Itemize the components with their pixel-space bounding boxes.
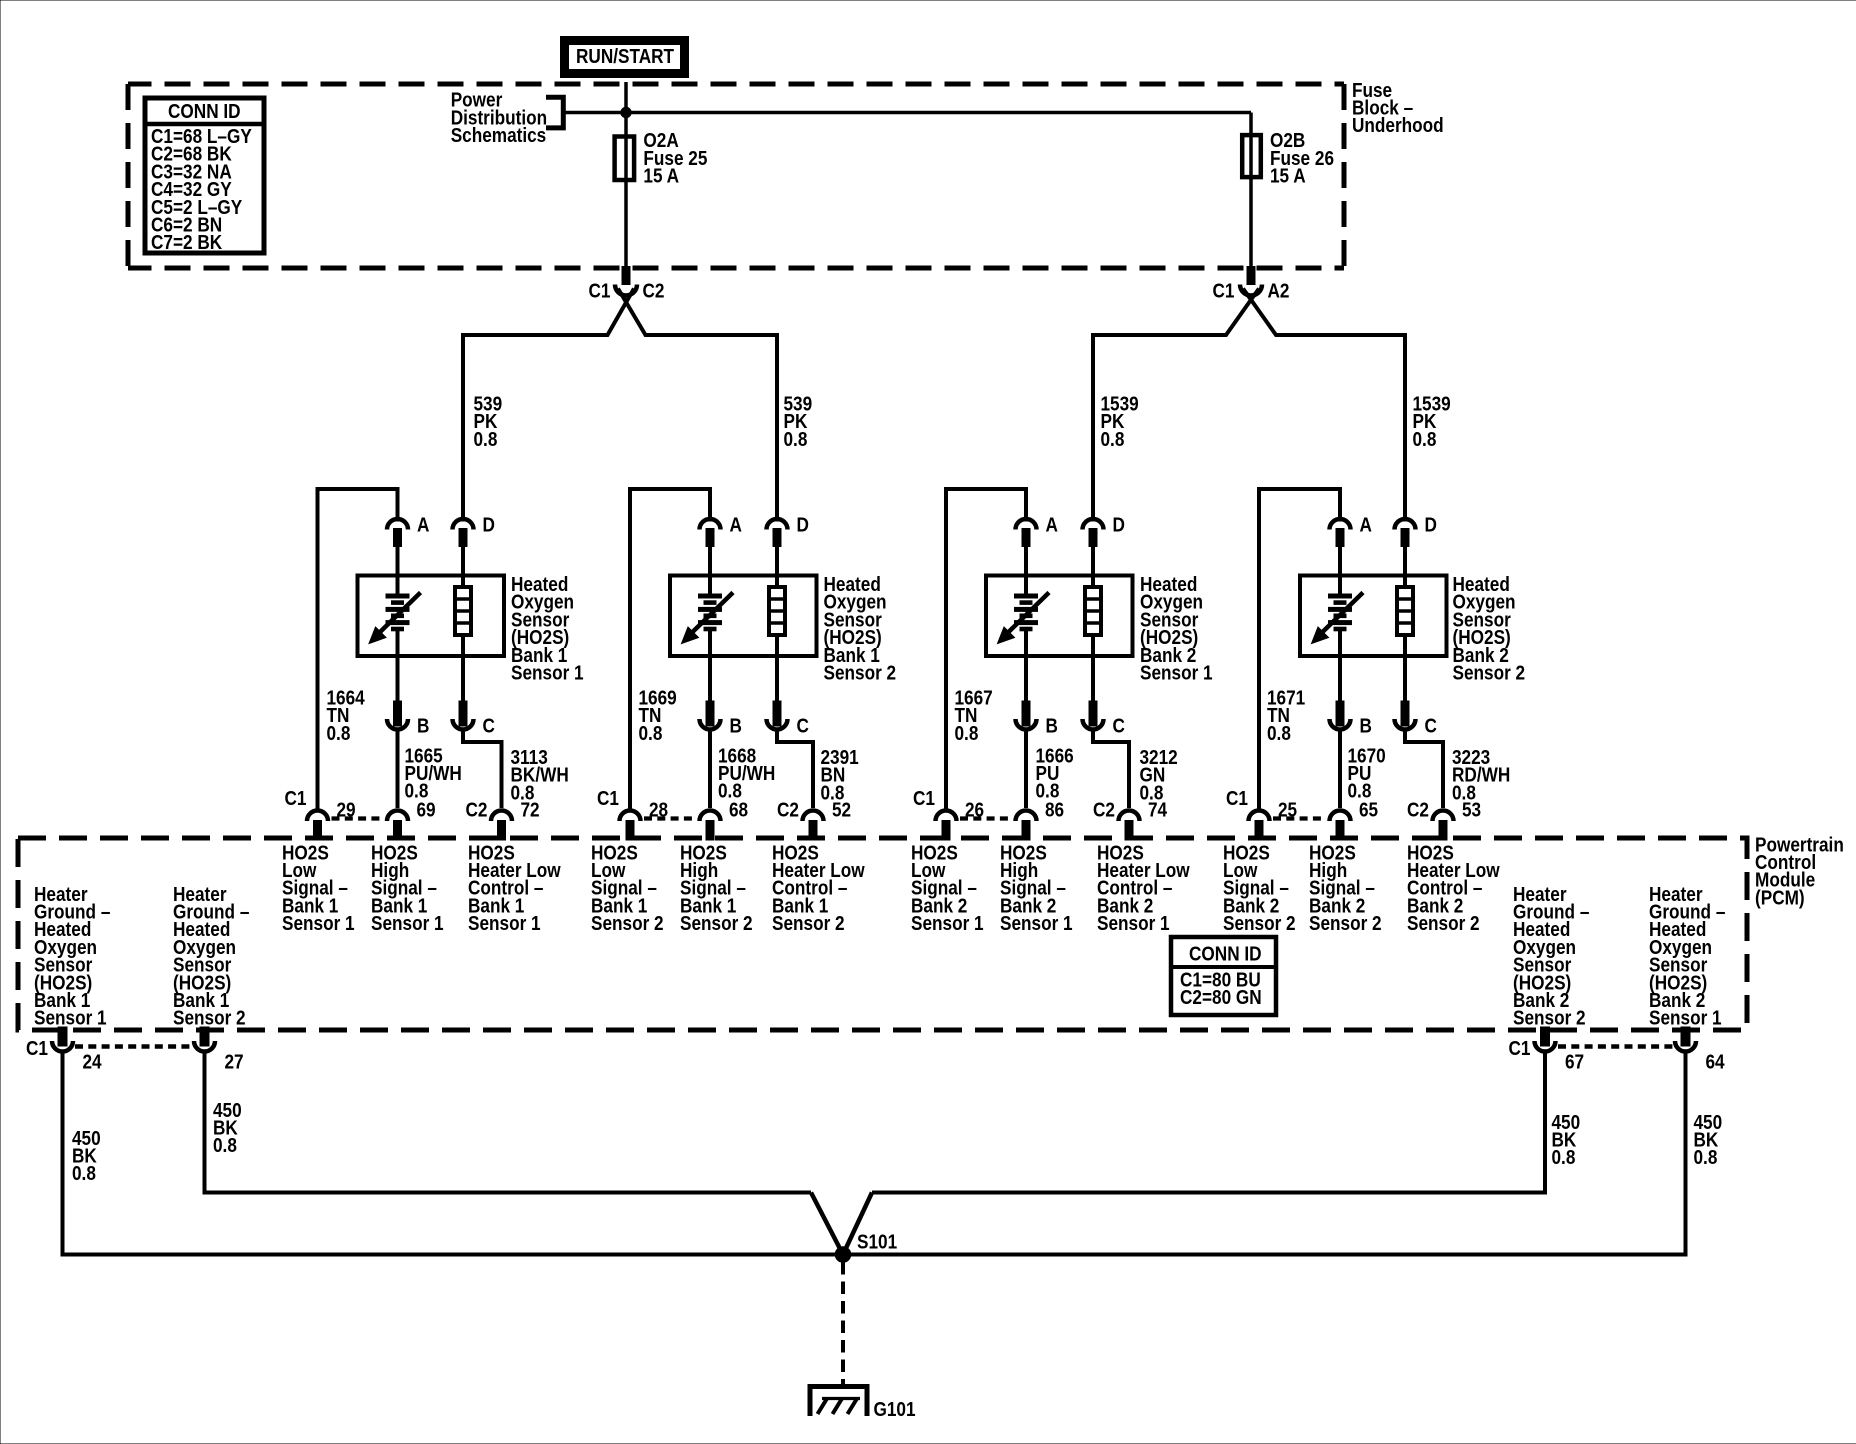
svg-text:RUN/START: RUN/START [576, 45, 675, 68]
svg-text:0.8: 0.8 [639, 722, 663, 745]
heater element - HO2S Bank 1 Sensor 2 [775, 546, 779, 588]
svg-text:C1: C1 [589, 279, 611, 302]
svg-text:C1: C1 [26, 1037, 48, 1060]
variable arrow - HO2S Bank 2 Sensor 1 [1007, 593, 1049, 634]
svg-text:A: A [1046, 513, 1058, 536]
svg-text:C1: C1 [913, 787, 935, 810]
PCM pin 72 (Heater Low Control Bank 1 Sensor 1) [491, 811, 512, 822]
wire - 1539 PK branch split from C1/A2 [1093, 289, 1259, 336]
PCM pin 28 (Low Signal Bank 1 Sensor 2) [620, 811, 641, 822]
connector pin D - HO2S Bank 1 Sensor 1 [453, 519, 474, 530]
svg-text:C2: C2 [777, 798, 799, 821]
svg-text:D: D [1425, 513, 1437, 536]
connector pin A - HO2S Bank 2 Sensor 2 [1330, 519, 1351, 530]
sensor box - Heated Oxygen Sensor HO2S Bank 1 Sensor 1 [358, 576, 505, 657]
connector pin B - HO2S Bank 1 Sensor 1 [394, 701, 402, 726]
svg-text:52: 52 [832, 798, 851, 821]
PCM pin 29 (Low Signal Bank 1 Sensor 1) [307, 811, 328, 822]
sensor box - Heated Oxygen Sensor HO2S Bank 2 Sensor 2 [1300, 576, 1447, 657]
connector pin B - HO2S Bank 2 Sensor 1 [1022, 701, 1030, 726]
svg-text:C2: C2 [643, 279, 665, 302]
svg-text:C2: C2 [466, 798, 488, 821]
wire - battery feed from RUN/START to fuses [624, 82, 628, 136]
PCM pin 65 (High Signal Bank 2 Sensor 2) [1330, 811, 1351, 822]
svg-text:0.8: 0.8 [1552, 1146, 1576, 1169]
svg-text:74: 74 [1148, 798, 1168, 821]
svg-text:Sensor 1: Sensor 1 [468, 912, 541, 935]
connector pin D - HO2S Bank 2 Sensor 1 [1083, 519, 1104, 530]
svg-text:Sensor 2: Sensor 2 [1309, 912, 1382, 935]
svg-text:15 A: 15 A [643, 164, 679, 187]
sensing element (variable cell) - HO2S Bank 1 Sensor 1 [396, 546, 400, 595]
sensing element (variable cell) - HO2S Bank 2 Sensor 2 [1338, 546, 1342, 595]
svg-text:D: D [797, 513, 809, 536]
svg-text:Sensor 1: Sensor 1 [371, 912, 444, 935]
wire - fuse O2B output to connector C1/A2 [1249, 177, 1253, 267]
svg-text:S101: S101 [857, 1230, 897, 1253]
connector pin A - HO2S Bank 1 Sensor 2 [700, 519, 721, 530]
wire - HO2S Bank 2 Sensor 2 high signal (pin B to PCM) [1338, 729, 1342, 808]
svg-text:CONN ID: CONN ID [1189, 942, 1262, 965]
PCM pin 86 (High Signal Bank 2 Sensor 1) [1016, 811, 1037, 822]
svg-text:C1: C1 [1226, 787, 1248, 810]
svg-text:C7=2 BK: C7=2 BK [151, 231, 223, 254]
PCM pin 25 (Low Signal Bank 2 Sensor 2) [1249, 811, 1270, 822]
connector pin C - HO2S Bank 1 Sensor 2 [773, 701, 781, 726]
PCM pin 52 (Heater Low Control Bank 1 Sensor 2) [803, 811, 824, 822]
svg-text:(PCM): (PCM) [1755, 886, 1805, 909]
svg-text:0.8: 0.8 [955, 722, 979, 745]
svg-text:C: C [1425, 714, 1437, 737]
svg-text:Underhood: Underhood [1352, 114, 1444, 137]
sensor box - Heated Oxygen Sensor HO2S Bank 2 Sensor 1 [986, 576, 1133, 657]
svg-text:Sensor 2: Sensor 2 [772, 912, 845, 935]
heater element - HO2S Bank 2 Sensor 2 [1403, 546, 1407, 588]
variable arrow - HO2S Bank 1 Sensor 2 [691, 593, 733, 634]
connector C1/C2 below fuse O2A [622, 267, 630, 285]
svg-text:Sensor 1: Sensor 1 [1097, 912, 1170, 935]
svg-text:Sensor 2: Sensor 2 [680, 912, 753, 935]
wire - HO2S Bank 2 Sensor 2 low signal (pin A to PCM) [1259, 489, 1340, 810]
sensing element (variable cell) - HO2S Bank 1 Sensor 2 [708, 546, 712, 595]
svg-text:C1: C1 [285, 787, 307, 810]
svg-text:27: 27 [225, 1050, 244, 1073]
Powertrain Control Module PCM (dashed box) [18, 838, 1747, 1030]
svg-text:Sensor 2: Sensor 2 [1407, 912, 1480, 935]
svg-text:86: 86 [1045, 798, 1064, 821]
wire 450 BK pin 24 to S101 [63, 1052, 844, 1255]
svg-text:Sensor 1: Sensor 1 [34, 1006, 107, 1029]
PCM pin 26 (Low Signal Bank 2 Sensor 1) [936, 811, 957, 822]
svg-text:C2: C2 [1093, 798, 1115, 821]
connector pin B - HO2S Bank 1 Sensor 2 [706, 701, 714, 726]
svg-text:67: 67 [1565, 1050, 1584, 1073]
fuse O2A Fuse 25 15 A [624, 136, 628, 181]
connector pin B - HO2S Bank 2 Sensor 2 [1336, 701, 1344, 726]
svg-text:C2: C2 [1407, 798, 1429, 821]
svg-text:15 A: 15 A [1270, 164, 1306, 187]
wire 450 BK pin 27 to S101 [205, 1052, 812, 1193]
svg-text:B: B [417, 714, 429, 737]
wire - HO2S Bank 2 Sensor 2 heater low control (pin C to PCM) [1405, 729, 1443, 808]
svg-text:C: C [483, 714, 495, 737]
connector pin A - HO2S Bank 2 Sensor 1 [1016, 519, 1037, 530]
svg-text:72: 72 [521, 798, 540, 821]
fuse block CONN ID table [145, 98, 264, 253]
svg-text:Sensor 1: Sensor 1 [1649, 1006, 1722, 1029]
svg-text:69: 69 [417, 798, 436, 821]
wire - HO2S Bank 1 Sensor 2 low signal (pin A to PCM) [630, 489, 710, 810]
wire - S101 to ground G101 (dashed) [841, 1262, 845, 1386]
wire - HO2S Bank 2 Sensor 1 low signal (pin A to PCM) [946, 489, 1026, 810]
svg-text:C: C [797, 714, 809, 737]
wire - HO2S Bank 2 Sensor 1 high signal (pin B to PCM) [1024, 729, 1028, 808]
sensor box - Heated Oxygen Sensor HO2S Bank 1 Sensor 2 [670, 576, 817, 657]
svg-text:0.8: 0.8 [327, 722, 351, 745]
splice S101 [811, 1193, 843, 1255]
svg-text:64: 64 [1706, 1050, 1726, 1073]
variable arrow - HO2S Bank 1 Sensor 1 [379, 593, 421, 634]
svg-text:Sensor 2: Sensor 2 [173, 1006, 246, 1029]
svg-text:C2=80 GN: C2=80 GN [1180, 986, 1262, 1009]
wire - HO2S Bank 2 Sensor 1 heater low control (pin C to PCM) [1093, 729, 1129, 808]
wire - HO2S Bank 1 Sensor 1 heater low control (pin C to PCM) [463, 729, 502, 808]
svg-text:Sensor 1: Sensor 1 [511, 661, 584, 684]
heater element - HO2S Bank 2 Sensor 1 [1091, 546, 1095, 588]
svg-text:24: 24 [83, 1050, 103, 1073]
connector C1/A2 below fuse O2B [1247, 267, 1255, 285]
svg-text:C: C [1113, 714, 1125, 737]
connector pin D - HO2S Bank 2 Sensor 2 [1395, 519, 1416, 530]
wire 450 BK pin 67 to S101 [872, 1052, 1545, 1193]
battery feed RUN/START [565, 41, 685, 74]
PCM pin 74 (Heater Low Control Bank 2 Sensor 1) [1119, 811, 1140, 822]
svg-text:Sensor 2: Sensor 2 [1453, 661, 1526, 684]
connector pin C - HO2S Bank 1 Sensor 1 [459, 701, 467, 726]
svg-text:65: 65 [1359, 798, 1378, 821]
svg-text:A: A [1360, 513, 1372, 536]
svg-text:C1: C1 [1509, 1037, 1531, 1060]
svg-text:B: B [1360, 714, 1372, 737]
svg-text:D: D [483, 513, 495, 536]
wire - HO2S Bank 1 Sensor 2 heater low control (pin C to PCM) [777, 729, 813, 808]
wire - HO2S Bank 1 Sensor 2 high signal (pin B to PCM) [708, 729, 712, 808]
svg-text:0.8: 0.8 [1267, 722, 1291, 745]
ground G101 [810, 1387, 867, 1417]
PCM pin 68 (High Signal Bank 1 Sensor 2) [700, 811, 721, 822]
svg-text:Sensor 2: Sensor 2 [1513, 1006, 1586, 1029]
connector pin C - HO2S Bank 2 Sensor 1 [1089, 701, 1097, 726]
svg-text:Sensor 1: Sensor 1 [1000, 912, 1073, 935]
sensing element (variable cell) - HO2S Bank 2 Sensor 1 [1024, 546, 1028, 595]
svg-text:68: 68 [729, 798, 748, 821]
svg-text:C1: C1 [1213, 279, 1235, 302]
svg-text:A: A [730, 513, 742, 536]
PCM CONN ID table [1171, 937, 1276, 1015]
svg-text:CONN ID: CONN ID [168, 100, 241, 123]
svg-text:Sensor 2: Sensor 2 [824, 661, 897, 684]
svg-text:0.8: 0.8 [1101, 428, 1125, 451]
dotted connector tie lines between ground pins [75, 1044, 192, 1049]
connector pin A - HO2S Bank 1 Sensor 1 [387, 519, 408, 530]
wire - 539 PK branch split from C1/C2 [463, 289, 634, 336]
svg-text:A2: A2 [1268, 279, 1290, 302]
svg-text:0.8: 0.8 [474, 428, 498, 451]
svg-text:0.8: 0.8 [784, 428, 808, 451]
connector pin D - HO2S Bank 1 Sensor 2 [767, 519, 788, 530]
svg-text:B: B [730, 714, 742, 737]
svg-text:Sensor 1: Sensor 1 [911, 912, 984, 935]
svg-text:Schematics: Schematics [451, 124, 547, 147]
fuse block - underhood (dashed box) [128, 84, 1344, 268]
variable arrow - HO2S Bank 2 Sensor 2 [1321, 593, 1363, 634]
connector pin C - HO2S Bank 2 Sensor 2 [1401, 701, 1409, 726]
svg-text:0.8: 0.8 [72, 1162, 96, 1185]
svg-text:B: B [1046, 714, 1058, 737]
heater element - HO2S Bank 1 Sensor 1 [461, 546, 465, 588]
svg-text:Sensor 2: Sensor 2 [591, 912, 664, 935]
dotted connector tie lines between C1 pins [332, 816, 384, 820]
svg-text:Sensor 1: Sensor 1 [1140, 661, 1213, 684]
svg-text:0.8: 0.8 [1694, 1146, 1718, 1169]
wire - HO2S Bank 1 Sensor 1 low signal (pin A to PCM) [318, 489, 398, 810]
svg-text:D: D [1113, 513, 1125, 536]
svg-text:Sensor 2: Sensor 2 [1223, 912, 1296, 935]
PCM pin 69 (High Signal Bank 1 Sensor 1) [387, 811, 408, 822]
junction node at fuse O2A feed [621, 107, 631, 117]
svg-text:C1: C1 [597, 787, 619, 810]
wire - fuse O2A output to connector C1/C2 [624, 180, 628, 267]
svg-text:53: 53 [1462, 798, 1481, 821]
fuse O2B Fuse 26 15 A [1249, 135, 1253, 180]
svg-text:G101: G101 [874, 1398, 916, 1421]
svg-text:Sensor 1: Sensor 1 [282, 912, 355, 935]
svg-text:0.8: 0.8 [213, 1134, 237, 1157]
PCM pin 53 (Heater Low Control Bank 2 Sensor 2) [1433, 811, 1454, 822]
wire 450 BK pin 64 to S101 [843, 1052, 1686, 1255]
svg-text:0.8: 0.8 [1413, 428, 1437, 451]
wire - HO2S Bank 1 Sensor 1 high signal (pin B to PCM) [396, 729, 400, 808]
svg-text:A: A [417, 513, 429, 536]
